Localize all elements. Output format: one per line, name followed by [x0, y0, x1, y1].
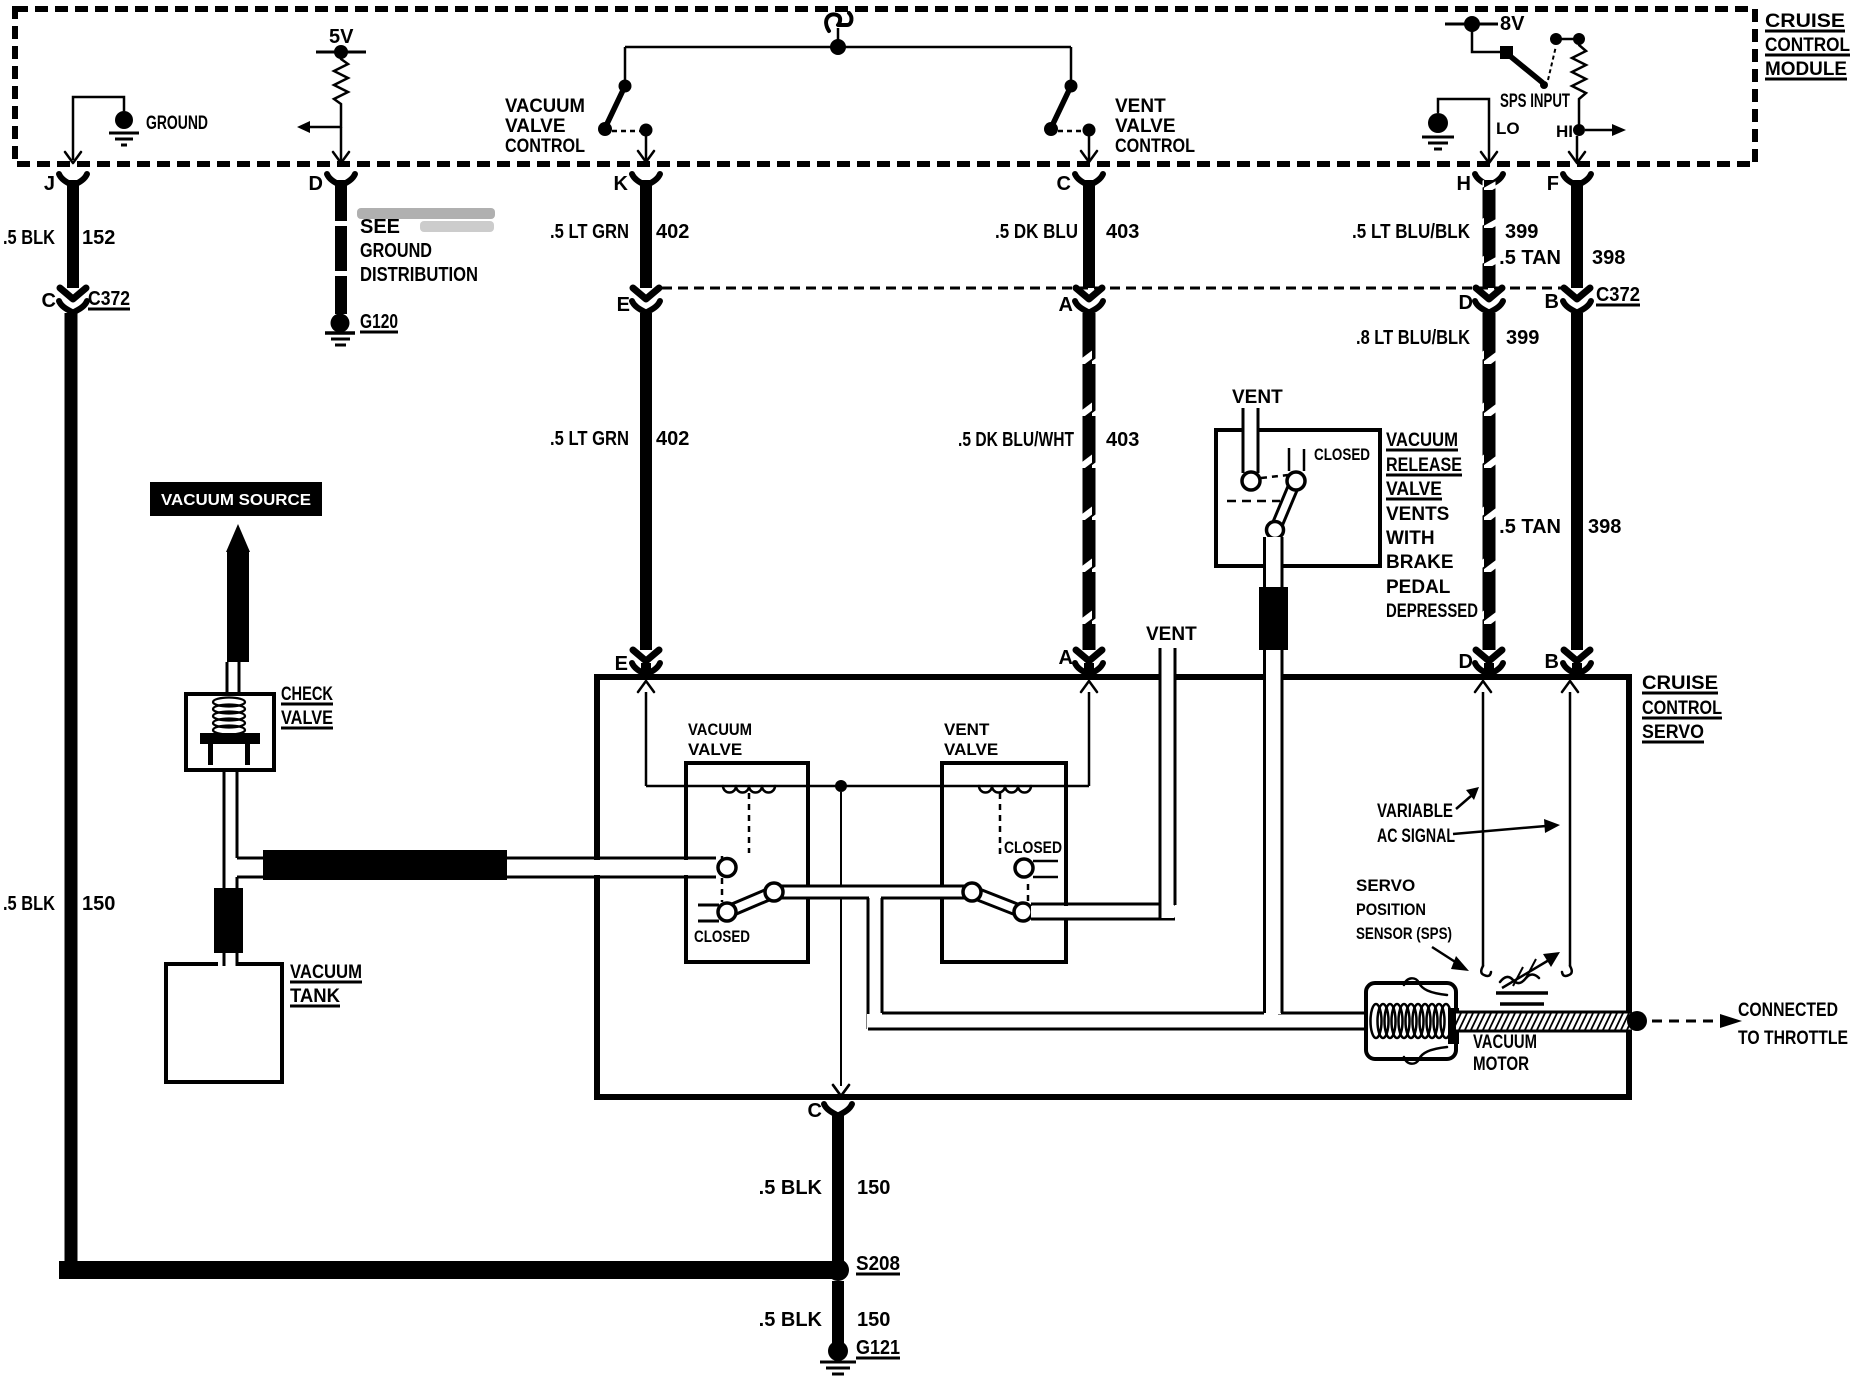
- svg-text:HI: HI: [1556, 122, 1573, 141]
- svg-text:C: C: [42, 290, 56, 312]
- svg-text:CONTROL: CONTROL: [1765, 35, 1850, 56]
- svg-text:.5 DK BLU: .5 DK BLU: [995, 221, 1078, 243]
- svg-text:.5 TAN: .5 TAN: [1499, 516, 1561, 538]
- svg-text:MODULE: MODULE: [1765, 59, 1847, 80]
- svg-text:VENT: VENT: [1146, 624, 1197, 645]
- svg-text:CHECK: CHECK: [281, 684, 333, 705]
- svg-text:.5 LT BLU/BLK: .5 LT BLU/BLK: [1352, 221, 1470, 243]
- svg-text:150: 150: [857, 1309, 890, 1331]
- svg-text:.5 TAN: .5 TAN: [1499, 247, 1561, 269]
- svg-text:.5 BLK: .5 BLK: [759, 1309, 823, 1331]
- svg-text:399: 399: [1505, 221, 1538, 243]
- svg-text:K: K: [614, 173, 629, 195]
- svg-text:VENT: VENT: [1232, 387, 1283, 408]
- svg-text:CONTROL: CONTROL: [1642, 698, 1722, 719]
- svg-text:.5 DK BLU/WHT: .5 DK BLU/WHT: [958, 429, 1074, 451]
- svg-text:CRUISE: CRUISE: [1642, 673, 1718, 694]
- svg-text:VENT: VENT: [944, 720, 990, 739]
- svg-text:D: D: [1459, 292, 1473, 314]
- svg-text:.5 LT GRN: .5 LT GRN: [550, 221, 629, 243]
- svg-text:VACUUM SOURCE: VACUUM SOURCE: [161, 492, 311, 509]
- svg-text:8V: 8V: [1500, 13, 1525, 35]
- svg-text:VALVE: VALVE: [688, 740, 742, 759]
- svg-text:E: E: [615, 653, 628, 675]
- svg-text:SERVO: SERVO: [1356, 876, 1415, 895]
- svg-text:VALVE: VALVE: [944, 740, 998, 759]
- svg-text:150: 150: [857, 1177, 890, 1199]
- svg-text:CRUISE: CRUISE: [1765, 11, 1845, 32]
- svg-text:VENTS: VENTS: [1386, 504, 1449, 525]
- svg-text:VALVE: VALVE: [1386, 479, 1442, 500]
- svg-text:C: C: [808, 1100, 822, 1122]
- svg-text:VACUUM: VACUUM: [290, 962, 362, 983]
- svg-text:PEDAL: PEDAL: [1386, 577, 1451, 598]
- svg-text:CLOSED: CLOSED: [694, 927, 750, 946]
- svg-text:E: E: [617, 294, 630, 316]
- svg-text:J: J: [44, 173, 55, 195]
- svg-text:DEPRESSED: DEPRESSED: [1386, 601, 1478, 622]
- svg-text:.5 BLK: .5 BLK: [759, 1177, 823, 1199]
- svg-text:152: 152: [82, 227, 115, 249]
- svg-text:BRAKE: BRAKE: [1386, 552, 1454, 573]
- svg-text:CONTROL: CONTROL: [505, 136, 585, 157]
- svg-text:5V: 5V: [329, 26, 354, 48]
- svg-text:D: D: [309, 173, 323, 195]
- svg-text:B: B: [1545, 651, 1559, 673]
- svg-text:TO THROTTLE: TO THROTTLE: [1738, 1028, 1848, 1049]
- svg-text:398: 398: [1588, 516, 1621, 538]
- svg-text:CONTROL: CONTROL: [1115, 136, 1195, 157]
- svg-text:MOTOR: MOTOR: [1473, 1054, 1529, 1075]
- svg-text:C372: C372: [1596, 284, 1640, 306]
- svg-text:CONNECTED: CONNECTED: [1738, 1000, 1838, 1021]
- svg-text:A: A: [1059, 294, 1073, 316]
- svg-text:GROUND: GROUND: [360, 240, 432, 262]
- svg-text:402: 402: [656, 221, 689, 243]
- svg-text:H: H: [1457, 173, 1471, 195]
- svg-text:VALVE: VALVE: [1115, 116, 1176, 137]
- svg-text:CLOSED: CLOSED: [1004, 838, 1062, 857]
- svg-text:VALVE: VALVE: [281, 708, 333, 729]
- svg-text:G121: G121: [856, 1337, 900, 1359]
- svg-text:B: B: [1545, 291, 1559, 313]
- svg-text:CLOSED: CLOSED: [1314, 445, 1370, 464]
- svg-text:VACUUM: VACUUM: [1473, 1032, 1537, 1053]
- svg-text:GROUND: GROUND: [146, 113, 208, 134]
- svg-text:VACUUM: VACUUM: [505, 96, 585, 117]
- svg-text:RELEASE: RELEASE: [1386, 455, 1462, 476]
- svg-text:C372: C372: [88, 288, 130, 310]
- svg-text:SPS INPUT: SPS INPUT: [1500, 91, 1570, 112]
- svg-text:WITH: WITH: [1386, 528, 1435, 549]
- svg-text:SERVO: SERVO: [1642, 722, 1704, 743]
- svg-text:VARIABLE: VARIABLE: [1377, 801, 1453, 822]
- svg-text:403: 403: [1106, 429, 1139, 451]
- svg-text:D: D: [1459, 651, 1473, 673]
- svg-text:A: A: [1059, 647, 1073, 669]
- svg-text:VACUUM: VACUUM: [1386, 430, 1458, 451]
- svg-text:C: C: [1057, 173, 1071, 195]
- svg-text:AC SIGNAL: AC SIGNAL: [1377, 826, 1455, 847]
- svg-text:403: 403: [1106, 221, 1139, 243]
- svg-text:.5 BLK: .5 BLK: [3, 227, 55, 249]
- svg-text:VENT: VENT: [1115, 96, 1166, 117]
- svg-text:SENSOR (SPS): SENSOR (SPS): [1356, 924, 1452, 943]
- svg-text:VALVE: VALVE: [505, 116, 566, 137]
- svg-text:S208: S208: [856, 1253, 900, 1275]
- svg-text:.8 LT BLU/BLK: .8 LT BLU/BLK: [1356, 327, 1470, 349]
- svg-text:SEE: SEE: [360, 216, 400, 238]
- svg-text:DISTRIBUTION: DISTRIBUTION: [360, 264, 478, 286]
- svg-text:399: 399: [1506, 327, 1539, 349]
- svg-text:VACUUM: VACUUM: [688, 720, 752, 739]
- svg-text:LO: LO: [1496, 119, 1520, 138]
- svg-text:TANK: TANK: [290, 986, 340, 1007]
- svg-text:402: 402: [656, 428, 689, 450]
- svg-text:.5 BLK: .5 BLK: [3, 893, 55, 915]
- svg-text:398: 398: [1592, 247, 1625, 269]
- svg-text:F: F: [1547, 173, 1559, 195]
- svg-text:150: 150: [82, 893, 115, 915]
- svg-text:G120: G120: [360, 311, 398, 333]
- svg-text:.5 LT GRN: .5 LT GRN: [550, 428, 629, 450]
- svg-text:POSITION: POSITION: [1356, 900, 1426, 919]
